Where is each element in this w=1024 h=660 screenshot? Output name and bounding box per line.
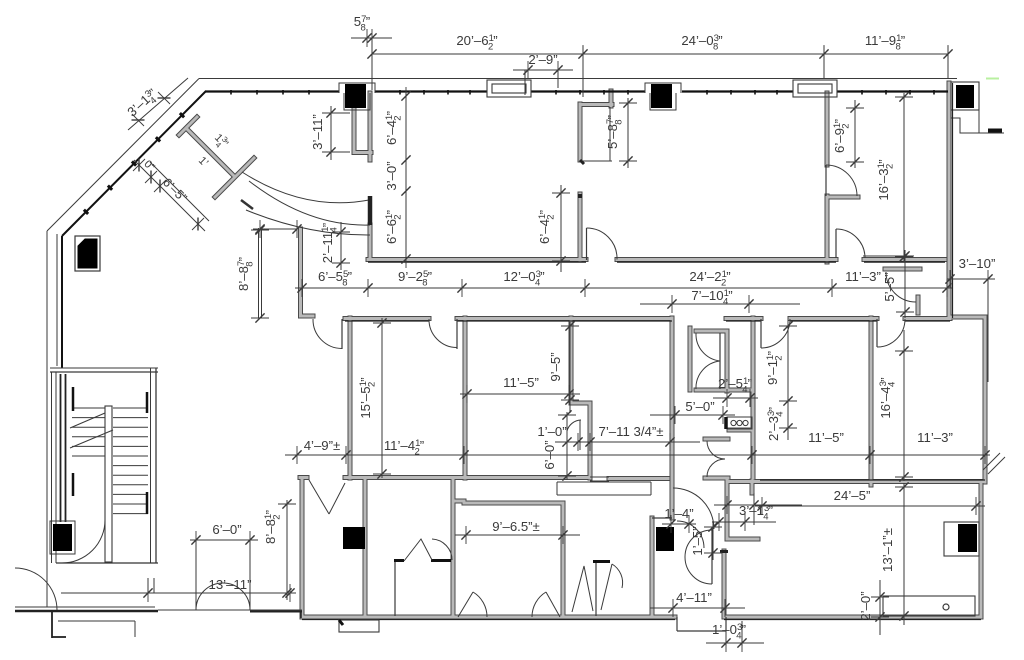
svg-text:7’–11 3/4”±: 7’–11 3/4”± [599, 424, 664, 439]
svg-text:4’–11”: 4’–11” [676, 590, 712, 605]
svg-text:3’–0”: 3’–0” [384, 161, 399, 190]
svg-text:1’–5”: 1’–5” [690, 526, 705, 555]
svg-text:2’–9”: 2’–9” [528, 52, 557, 67]
svg-text:24’–5”: 24’–5” [834, 488, 871, 503]
svg-text:11’–5”: 11’–5” [503, 375, 539, 390]
svg-text:11’–3”: 11’–3” [845, 269, 881, 284]
svg-text:9’–5”: 9’–5” [548, 352, 563, 381]
svg-text:6’–0”: 6’–0” [212, 522, 241, 537]
svg-text:9’–6.5”±: 9’–6.5”± [492, 519, 540, 534]
svg-text:11’–3”: 11’–3” [917, 430, 953, 445]
svg-text:6’–0”: 6’–0” [542, 440, 557, 469]
svg-text:5’–0”: 5’–0” [685, 399, 714, 414]
svg-text:13’–1”±: 13’–1”± [880, 528, 895, 572]
svg-text:2’–0”: 2’–0” [858, 591, 873, 620]
svg-text:3’–11”: 3’–11” [310, 114, 325, 150]
svg-text:4’–9”±: 4’–9”± [304, 438, 341, 453]
svg-text:1’–4”: 1’–4” [664, 506, 693, 521]
svg-text:3’–10”: 3’–10” [959, 256, 996, 271]
svg-text:1’–0”: 1’–0” [537, 424, 566, 439]
svg-text:11’–5”: 11’–5” [808, 430, 844, 445]
svg-text:13’–11”: 13’–11” [208, 577, 251, 592]
